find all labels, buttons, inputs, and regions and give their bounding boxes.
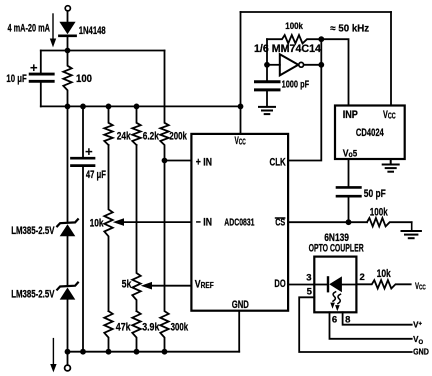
svg-text:6: 6	[332, 314, 337, 325]
capacitor 10uF	[30, 51, 53, 107]
LED inside opto	[314, 276, 356, 292]
junction +IN node	[162, 158, 168, 164]
svg-text:24k: 24k	[117, 130, 131, 142]
svg-text:1/6 MM74C14: 1/6 MM74C14	[254, 43, 321, 55]
junction	[162, 349, 168, 355]
ground (1000 pF)	[259, 107, 275, 114]
resistor 47k	[104, 311, 112, 352]
svg-text:47k: 47k	[116, 322, 131, 334]
svg-text:10 μF: 10 μF	[6, 73, 27, 85]
svg-text:10k: 10k	[90, 218, 104, 230]
resistor 200k	[160, 51, 168, 161]
svg-text:47 μF: 47 μF	[86, 169, 106, 181]
wire +IN	[165, 160, 192, 162]
svg-text:100k: 100k	[370, 207, 388, 219]
opto-coupler U4 6N139 box	[314, 257, 356, 313]
wire inverter output	[304, 64, 322, 66]
svg-text:50 pF: 50 pF	[364, 188, 386, 200]
junction inverter input	[264, 62, 270, 68]
resistor 100k CS pullup	[367, 218, 412, 226]
Vcc rail	[41, 105, 241, 107]
svg-text:− IN: − IN	[196, 216, 212, 228]
current direction arrow	[50, 14, 56, 47]
svg-text:GND: GND	[232, 299, 249, 311]
svg-text:100k: 100k	[285, 21, 303, 31]
ground (CD4024)	[383, 159, 399, 172]
svg-text:3.9k: 3.9k	[142, 322, 159, 334]
wire VREF from 5k wiper	[152, 285, 191, 287]
svg-text:5k: 5k	[122, 279, 132, 291]
junction	[134, 349, 140, 355]
junction	[106, 104, 112, 110]
svg-text:8: 8	[345, 314, 350, 325]
resistor 3.9k	[132, 311, 140, 352]
svg-text:≈ 50 kHz: ≈ 50 kHz	[330, 24, 369, 35]
junction	[65, 48, 71, 54]
svg-text:CS: CS	[275, 218, 285, 229]
potentiometer 5k	[132, 145, 152, 311]
wire pin5 to GND line	[299, 297, 412, 352]
resistor 24k	[104, 106, 112, 145]
resistor 300k	[160, 161, 168, 352]
junction CS node	[346, 219, 352, 225]
capacitor 47uF	[72, 106, 95, 351]
LED light arrow left	[330, 292, 335, 309]
wire pin8 to V+	[343, 312, 412, 324]
wire -IN from 10k wiper	[124, 221, 191, 223]
svg-text:DO: DO	[274, 278, 285, 290]
svg-text:+ IN: + IN	[196, 156, 212, 168]
counter U3 CD4024 box	[335, 106, 405, 160]
wire top rail drop to CD4024 Vcc	[390, 12, 392, 106]
svg-text:CLK: CLK	[270, 156, 286, 168]
zener LM385-2.5V lower	[57, 283, 78, 352]
wire DO line	[288, 284, 314, 286]
wire ADC GND pin to rail	[238, 311, 240, 352]
input terminal (4-20 mA loop)	[65, 6, 70, 11]
svg-text:200k: 200k	[169, 130, 187, 142]
svg-text:INP: INP	[343, 109, 358, 121]
potentiometer 10k	[104, 145, 124, 311]
svg-text:Vo5: Vo5	[343, 148, 358, 160]
svg-text:300k: 300k	[171, 322, 189, 334]
ground rail bottom	[68, 351, 240, 353]
svg-text:CD4024: CD4024	[356, 127, 384, 139]
svg-text:4 mA-20 mA: 4 mA-20 mA	[8, 22, 51, 34]
junction	[65, 104, 71, 110]
LED light arrow right	[335, 294, 340, 311]
svg-text:LM385-2.5V: LM385-2.5V	[11, 288, 54, 300]
svg-text:100: 100	[76, 73, 92, 85]
svg-text:6.2k: 6.2k	[143, 130, 159, 142]
svg-text:1N4148: 1N4148	[79, 25, 106, 37]
wire CLK	[288, 65, 321, 161]
junction	[65, 349, 71, 355]
svg-text:LM385-2.5V: LM385-2.5V	[11, 225, 54, 237]
svg-text:1000 pF: 1000 pF	[282, 79, 310, 90]
inverter U2 1/6 MM74C14	[280, 54, 304, 75]
svg-text:VCC: VCC	[415, 281, 426, 292]
wire zener chain top	[67, 106, 69, 222]
zener LM385-2.5V upper	[57, 219, 78, 285]
wire Vcc to ADC	[240, 106, 242, 133]
svg-text:VCC: VCC	[383, 109, 396, 121]
svg-text:5: 5	[307, 287, 313, 298]
wire CS line	[288, 221, 367, 223]
svg-text:2: 2	[360, 272, 365, 283]
capacitor 50 pF	[337, 159, 360, 222]
junction Vcc	[238, 104, 244, 110]
wire Vcc riser to top rail	[240, 12, 242, 106]
junction inverter output	[318, 62, 324, 68]
junction	[80, 349, 86, 355]
junction	[134, 104, 140, 110]
svg-text:ADC0831: ADC0831	[224, 217, 254, 228]
wire	[67, 11, 69, 22]
return terminal	[65, 352, 71, 371]
wire inverter input	[267, 64, 280, 66]
svg-text:3: 3	[306, 273, 311, 284]
wire 50kHz to INP	[321, 39, 348, 105]
junction	[80, 104, 86, 110]
svg-text:VCC: VCC	[235, 135, 246, 147]
junction	[106, 349, 112, 355]
op-amp/ADC U1 ADC0831 box	[191, 134, 288, 311]
wire pin6 to Vo	[330, 312, 412, 339]
resistor 10k pullup	[356, 280, 410, 288]
resistor 100k feedback	[267, 35, 321, 65]
resistor 6.2k	[132, 106, 140, 145]
diode 1N4148	[59, 22, 75, 51]
capacitor 1000 pF	[256, 65, 280, 106]
svg-text:OPTO COUPLER: OPTO COUPLER	[309, 243, 364, 255]
svg-text:VREF: VREF	[195, 279, 214, 291]
wire top rail	[241, 11, 392, 13]
pin label CS with overline	[275, 218, 286, 229]
return arrow	[50, 339, 56, 373]
resistor 100	[63, 51, 71, 107]
svg-text:GND: GND	[413, 346, 429, 356]
ground (CS 100k)	[402, 222, 421, 238]
junction 50kHz node	[318, 36, 324, 42]
svg-text:10k: 10k	[377, 268, 391, 280]
node A rail (diode cathode)	[41, 50, 165, 52]
